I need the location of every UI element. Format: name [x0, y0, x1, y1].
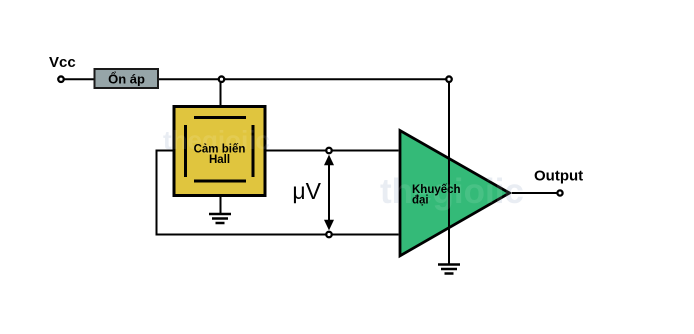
svg-text:μV: μV [292, 178, 321, 204]
svg-text:đại: đại [412, 195, 429, 207]
svg-text:Vcc: Vcc [49, 54, 76, 71]
svg-text:Output: Output [534, 168, 583, 185]
svg-text:Ổn áp: Ổn áp [108, 72, 145, 87]
svg-text:Hall: Hall [209, 154, 230, 166]
